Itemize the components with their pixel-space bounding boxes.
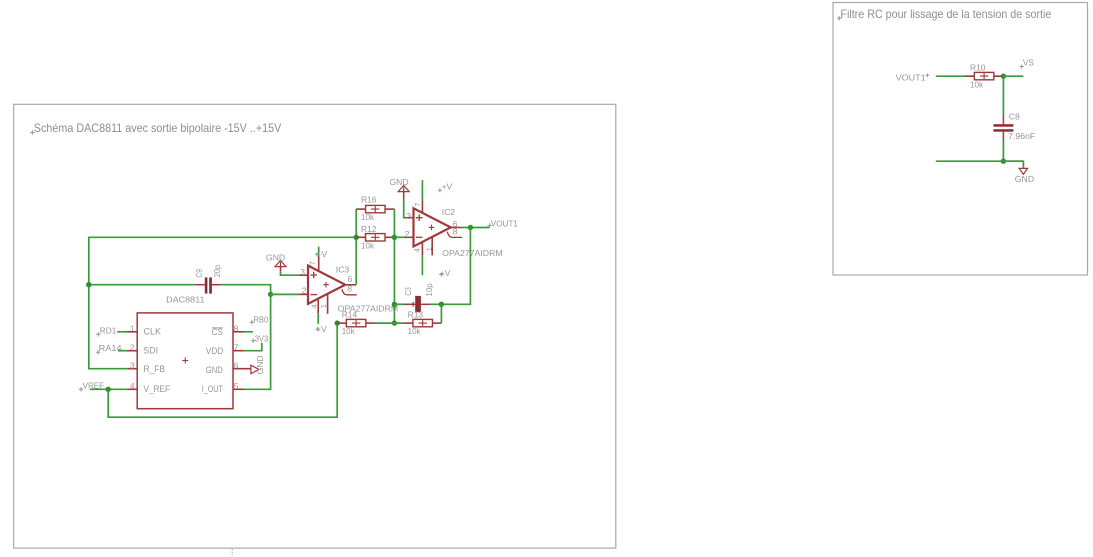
left frame title text <box>30 130 35 135</box>
right frame title text <box>837 16 842 21</box>
resistor R10 <box>974 72 994 79</box>
svg-text:7: 7 <box>308 261 317 265</box>
right drawing frame <box>833 3 1088 276</box>
pin 6 output stub of IC3 <box>345 284 356 286</box>
svg-text:+V: +V <box>316 324 327 334</box>
label RB0 <box>250 320 255 325</box>
wire C9 row left segment <box>89 284 196 286</box>
wire bottom rail <box>936 160 1024 162</box>
wire VREF feedback bottom loop to R14 <box>108 323 337 417</box>
svg-text:GND: GND <box>389 177 408 187</box>
svg-text:CLK: CLK <box>144 327 162 337</box>
svg-text:+V: +V <box>442 181 453 191</box>
ground symbol GND right frame <box>1019 168 1027 174</box>
supply +V above IC3 <box>315 252 319 256</box>
pin stub R12 right <box>385 236 395 238</box>
svg-text:R13: R13 <box>408 309 424 319</box>
pin CLK stub <box>127 331 137 333</box>
node at x88 C9 row <box>86 282 91 287</box>
svg-text:7.96nF: 7.96nF <box>1008 131 1035 141</box>
node VOUT1 junction <box>468 225 473 230</box>
node R14 left junction <box>335 320 340 325</box>
pin 1 of IC3 <box>327 294 329 314</box>
svg-text:4: 4 <box>130 381 135 391</box>
svg-text:R16: R16 <box>361 195 377 205</box>
svg-text:IC3: IC3 <box>336 264 350 274</box>
pin 4 of IC3 with supply wire <box>317 299 319 314</box>
label VOUT1 <box>487 223 492 228</box>
wire GND down to IC2 +input <box>403 191 405 200</box>
wire GND to IC3 +input <box>280 266 282 271</box>
svg-text:3: 3 <box>300 267 305 277</box>
svg-text:GND: GND <box>1015 174 1034 184</box>
svg-text:2: 2 <box>405 229 410 239</box>
label RD1 <box>96 332 101 337</box>
left drawing frame <box>14 104 616 548</box>
wire node to IC3 inverting input <box>271 293 301 295</box>
pin stub R12 left <box>356 236 365 238</box>
svg-text:DAC8811: DAC8811 <box>166 294 205 304</box>
svg-text:I_OUT: I_OUT <box>202 384 223 394</box>
svg-text:C9: C9 <box>194 269 204 278</box>
pin 8 hook of IC3 <box>342 289 357 295</box>
svg-text:2: 2 <box>302 286 307 296</box>
op-amp IC2 <box>414 208 451 246</box>
wire node down to DAC I_OUT <box>244 294 271 389</box>
pin IC2 +in stub <box>405 217 414 219</box>
resistor R13 <box>413 319 433 326</box>
svg-text:RA14: RA14 <box>99 343 122 353</box>
wire CS to RB0 label <box>244 331 253 333</box>
svg-text:10k: 10k <box>361 212 375 222</box>
pin name CS with overline <box>212 327 223 329</box>
svg-text:20p: 20p <box>212 265 222 278</box>
label 3V3 <box>251 338 256 343</box>
pin CS stub <box>233 331 244 333</box>
svg-text:R12: R12 <box>361 224 377 234</box>
node R14 R13 mid junction <box>392 320 397 325</box>
wire node to VS label <box>1003 75 1023 77</box>
svg-text:10k: 10k <box>361 241 375 251</box>
svg-text:GND: GND <box>255 355 265 374</box>
wire C3 right segment <box>430 303 441 305</box>
wire C9 row right segment to IC3 pin2 node <box>221 285 271 295</box>
supply +V below IC3 <box>316 327 320 331</box>
wire IC3 output up to R16/R12 left node <box>355 209 357 285</box>
svg-text:1: 1 <box>319 304 328 308</box>
svg-text:10k: 10k <box>408 326 422 336</box>
wire R12 to IC2 -input <box>394 236 405 238</box>
wire net from R12 row down-left to DAC R_FB pin <box>89 237 356 368</box>
pin 6 output stub of IC2 <box>450 227 460 229</box>
resistor R14 <box>346 319 366 326</box>
pin I_OUT stub <box>233 388 244 390</box>
svg-text:5: 5 <box>234 381 239 391</box>
svg-text:+V: +V <box>317 249 328 259</box>
svg-text:VOUT1: VOUT1 <box>896 72 926 82</box>
wire VDD to 3V3 label <box>244 343 262 351</box>
svg-text:OPA277AIDRM: OPA277AIDRM <box>442 248 503 258</box>
svg-text:VOUT1: VOUT1 <box>491 218 518 228</box>
wire RD1 to CLK <box>117 331 128 333</box>
page fold tick <box>231 549 233 556</box>
pin IC3 +in stub <box>300 274 308 276</box>
wire R13 right up to C3 node <box>440 304 442 323</box>
svg-text:IC2: IC2 <box>442 207 456 217</box>
node VREF junction <box>106 387 111 392</box>
node R12 right junction <box>392 235 397 240</box>
IC DAC8811 body <box>137 313 233 409</box>
wire right vertical R16-R12-C3-R13 <box>393 209 395 323</box>
supply +V below IC2 <box>439 272 443 276</box>
op-amp IC3 <box>308 266 345 304</box>
svg-text:Filtre RC pour lissage de la t: Filtre RC pour lissage de la tension de … <box>840 7 1051 21</box>
svg-text:R10: R10 <box>970 62 986 72</box>
svg-text:R_FB: R_FB <box>144 364 166 374</box>
pin stub R13 right <box>432 322 441 324</box>
pin stub R10 left <box>965 75 975 77</box>
svg-text:RB0: RB0 <box>254 314 269 324</box>
svg-text:4: 4 <box>309 304 318 308</box>
ground symbol right-pointing at DAC GND pin <box>251 365 259 374</box>
wire VOUT1 to R10 <box>936 75 965 77</box>
pin stub R14 left <box>337 322 346 324</box>
ground symbol GND at IC3 +input <box>275 260 286 269</box>
svg-text:GND: GND <box>206 365 223 375</box>
node IC3 pin2 junction <box>268 292 273 297</box>
svg-text:R14: R14 <box>342 309 358 319</box>
pin SDI stub <box>127 350 137 352</box>
pin stub R13 left <box>404 322 414 324</box>
svg-text:CS: CS <box>212 327 223 337</box>
wire C3 left segment <box>394 303 404 305</box>
pin 7 of IC3 with supply wire <box>318 256 320 271</box>
pin VDD stub <box>233 350 244 352</box>
pin 1 of IC2 <box>431 237 433 255</box>
pin R_FB stub <box>127 368 137 370</box>
pin 4 of IC2 with supply wire <box>421 242 423 255</box>
svg-text:7: 7 <box>413 203 422 207</box>
svg-text:GND: GND <box>266 252 285 262</box>
svg-text:3: 3 <box>130 360 135 370</box>
wire RA14 to SDI <box>118 350 128 352</box>
svg-text:10k: 10k <box>970 80 984 90</box>
pin IC3 -in stub <box>300 293 308 295</box>
label VREF <box>79 387 84 392</box>
wire VOUT1 node down to C3 right node <box>441 228 470 305</box>
svg-text:RD1: RD1 <box>100 325 117 335</box>
svg-text:4: 4 <box>412 248 421 252</box>
wire node down to C8 <box>1002 76 1004 115</box>
pin 8 hook of IC2 <box>447 232 462 238</box>
resistor R12 <box>366 234 386 241</box>
ground symbol GND above IC2 <box>398 185 409 194</box>
svg-text:10k: 10k <box>342 326 356 336</box>
svg-text:VDD: VDD <box>206 346 224 356</box>
capacitor C8 <box>993 115 1013 141</box>
svg-text:V_REF: V_REF <box>144 384 171 394</box>
capacitor C3 polarized <box>404 296 430 312</box>
supply +V above IC2 <box>438 188 442 192</box>
capacitor C9 <box>195 277 221 293</box>
label RA14 <box>96 350 101 355</box>
svg-text:SDI: SDI <box>144 346 159 356</box>
svg-text:C8: C8 <box>1009 111 1020 121</box>
wire C8 down to bottom node <box>1002 141 1004 161</box>
pin stub R10 right <box>994 75 1004 77</box>
pin stub R16 left <box>356 208 365 210</box>
wire R14 to R13 <box>375 322 404 324</box>
svg-text:Schéma DAC8811 avec sortie bip: Schéma DAC8811 avec sortie bipolaire -15… <box>34 121 282 135</box>
wire to GND symbol <box>1003 161 1023 168</box>
svg-text:3: 3 <box>407 211 412 221</box>
svg-text:+V: +V <box>440 268 451 278</box>
svg-text:10p: 10p <box>424 283 434 297</box>
svg-text:C3: C3 <box>403 287 413 296</box>
pin V_REF stub <box>127 388 137 390</box>
svg-text:3V3: 3V3 <box>255 333 269 343</box>
svg-text:1: 1 <box>425 247 434 251</box>
pin stub R14 right <box>366 322 375 324</box>
node VS junction <box>1001 74 1006 79</box>
pin GND stub of DAC <box>233 368 251 370</box>
node bottom junction <box>1001 159 1006 164</box>
pin stub R16 right <box>385 208 395 210</box>
node R12 left junction <box>354 235 359 240</box>
label VS <box>1020 64 1024 68</box>
svg-text:VS: VS <box>1023 58 1034 68</box>
wire VREF to DAC V_REF pin <box>90 388 128 390</box>
pin 7 of IC2 with supply wire <box>421 200 423 214</box>
resistor R16 <box>366 205 386 212</box>
wire R12 node down is shared; node at C3 left <box>392 302 397 307</box>
wire IC2 output to VOUT1 <box>460 227 489 229</box>
node C3 right junction <box>439 302 444 307</box>
pin IC2 -in stub <box>405 236 414 238</box>
